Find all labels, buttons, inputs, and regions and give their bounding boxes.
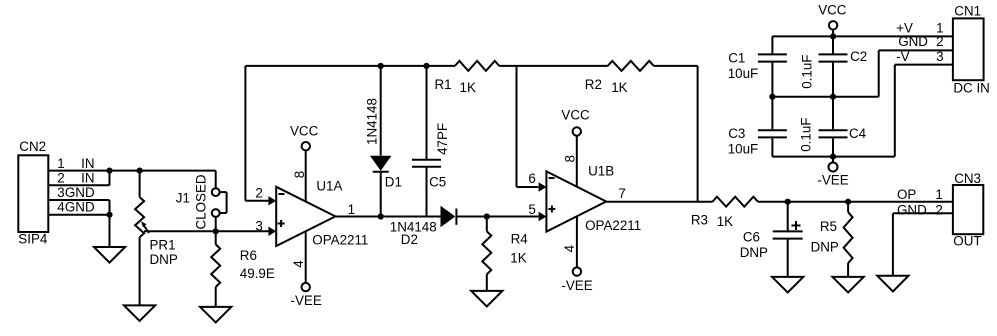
svg-text:SIP4: SIP4	[18, 231, 48, 246]
label C5 47PF	[435, 123, 450, 155]
svg-text:GND: GND	[65, 185, 95, 200]
svg-text:1N4148: 1N4148	[364, 98, 379, 145]
wire R2 to output	[654, 66, 698, 202]
CN1 pin3 label -V	[896, 49, 943, 64]
label C2	[850, 49, 867, 64]
U1A pin 8 label	[292, 171, 307, 178]
capacitor C5	[412, 66, 441, 217]
terminal U1A -VEE	[302, 283, 310, 291]
label U1B OPA2211	[585, 218, 641, 233]
svg-text:-V: -V	[896, 49, 909, 64]
terminal VCC	[829, 21, 837, 29]
label C4 0.1uF	[799, 118, 814, 152]
svg-text:1K: 1K	[611, 80, 627, 95]
wire feedback left vertical	[244, 66, 246, 201]
U1A pin 1 label	[348, 202, 355, 217]
label R5	[820, 219, 837, 234]
svg-text:VCC: VCC	[290, 124, 319, 139]
wire CN1 pin2 GND	[879, 49, 953, 51]
svg-text:3: 3	[57, 185, 64, 200]
wire D2 to U1B pin5	[456, 216, 538, 218]
wire CN2 pin2	[48, 171, 109, 186]
svg-text:R1: R1	[435, 77, 452, 92]
svg-text:47PF: 47PF	[435, 123, 450, 155]
label VCC	[818, 2, 847, 17]
CN2 pin 1 label	[57, 156, 94, 171]
svg-text:10uF: 10uF	[728, 141, 759, 156]
svg-text:1K: 1K	[460, 80, 476, 95]
label R4 1K	[510, 251, 526, 266]
wire CN2 pin1 / node IN	[48, 170, 215, 172]
svg-text:C2: C2	[850, 49, 867, 64]
wire U1A output	[335, 216, 440, 218]
svg-text:0.1uF: 0.1uF	[799, 118, 814, 152]
CN2 pin 4 label	[57, 200, 95, 215]
CN1 pin2 label GND	[898, 34, 943, 49]
ground R4	[471, 291, 502, 307]
junction pin3-pin4	[106, 212, 112, 218]
svg-text:DNP: DNP	[150, 252, 178, 267]
svg-text:IN: IN	[81, 171, 94, 186]
U1A pin 3 arrow	[268, 227, 276, 236]
ground CN2	[94, 247, 125, 263]
svg-text:1: 1	[348, 202, 355, 217]
label R6	[240, 248, 257, 263]
svg-text:CN1: CN1	[954, 3, 981, 18]
label R5 DNP	[811, 240, 839, 255]
U1B pin 5 arrow	[539, 212, 547, 221]
label CN3 OUT	[953, 234, 981, 249]
svg-text:49.9E: 49.9E	[240, 266, 275, 281]
svg-text:-VEE: -VEE	[817, 173, 848, 188]
capacitor C4	[819, 97, 848, 157]
svg-text:7: 7	[618, 186, 625, 201]
svg-text:OP: OP	[897, 187, 916, 202]
resistor R3	[713, 197, 758, 207]
label U1A	[316, 179, 342, 194]
wire VCC rail	[772, 35, 953, 37]
ground PR1	[124, 305, 155, 321]
svg-text:CLOSED: CLOSED	[193, 174, 208, 229]
U1B pin 6 label	[528, 171, 535, 186]
junction VCC rail	[830, 33, 836, 39]
label CN2	[19, 139, 46, 154]
svg-text:VCC: VCC	[818, 2, 847, 17]
label -VEE	[817, 173, 848, 188]
svg-text:C1: C1	[728, 51, 745, 66]
svg-text:R6: R6	[240, 248, 257, 263]
svg-text:D1: D1	[385, 175, 402, 190]
U1B pin 5 label	[528, 202, 535, 217]
label C6	[743, 230, 760, 245]
U1A pin 4 wire	[305, 231, 307, 283]
label C3	[728, 126, 745, 141]
CN3 pin2 label GND	[897, 203, 943, 218]
svg-text:VCC: VCC	[561, 108, 590, 123]
svg-text:1: 1	[935, 187, 942, 202]
svg-text:J1: J1	[176, 190, 190, 205]
label U1B VCC	[561, 108, 590, 123]
U1B pin 6 arrow	[539, 182, 547, 191]
resistor R6	[211, 231, 220, 307]
capacitor C3	[758, 97, 787, 157]
label C6 DNP	[740, 245, 768, 260]
svg-text:3: 3	[936, 49, 943, 64]
resistor R2	[608, 61, 654, 71]
label R1	[435, 77, 452, 92]
junction C5 top	[423, 63, 429, 69]
jumper J1	[212, 188, 227, 217]
U1A pin 2 label	[255, 185, 262, 200]
junction -VEE rail	[830, 154, 836, 160]
svg-text:4: 4	[291, 260, 306, 268]
svg-text:2: 2	[255, 185, 262, 200]
label C2 0.1uF	[799, 55, 814, 89]
svg-text:DNP: DNP	[740, 245, 768, 260]
svg-text:C6: C6	[743, 230, 760, 245]
junction mid rail C1	[769, 94, 775, 100]
svg-text:R5: R5	[820, 219, 837, 234]
wire CN3 GND to ground	[893, 213, 953, 275]
U1B pin 4 label	[562, 244, 577, 252]
svg-text:8: 8	[292, 171, 307, 178]
terminal U1B VCC	[573, 127, 581, 135]
svg-text:CN3: CN3	[954, 171, 981, 186]
svg-text:CN2: CN2	[19, 139, 46, 154]
wire U1B output	[606, 201, 712, 203]
wire U1A pin2	[245, 196, 276, 205]
svg-text:PR1: PR1	[150, 237, 176, 252]
label D1 1N4148	[364, 98, 379, 145]
label SIP4	[18, 231, 48, 246]
terminal U1A VCC	[302, 142, 310, 150]
U1A pin 3 label	[255, 218, 262, 233]
label C1 10uF	[728, 66, 759, 81]
U1A pin 4 label	[291, 260, 306, 268]
CN2 pin 2 label	[57, 171, 94, 186]
ground CN3	[877, 276, 908, 292]
resistor R5	[844, 202, 853, 277]
svg-text:GND: GND	[898, 34, 928, 49]
wire -VEE rail	[772, 65, 894, 157]
label R3	[691, 213, 708, 228]
connector CN2	[18, 155, 48, 232]
junction mid rail C2	[830, 94, 836, 100]
connector CN1	[953, 18, 984, 80]
U1B pin 8 label	[562, 155, 577, 162]
wire wiper net to U1A pin3	[144, 230, 269, 232]
svg-text:0.1uF: 0.1uF	[799, 55, 814, 89]
wire CN2 pin3	[48, 200, 109, 215]
resistor R4	[482, 217, 491, 291]
capacitor C1	[758, 36, 787, 96]
svg-text:GND: GND	[65, 200, 95, 215]
diode D1	[370, 66, 391, 217]
capacitor C2	[819, 36, 848, 96]
wire U1B pin6 drop	[517, 66, 539, 187]
svg-text:1K: 1K	[717, 214, 733, 229]
label D2 1N4148	[390, 220, 437, 235]
U1A pin 8 wire	[305, 151, 307, 202]
U1B pin 8 wire	[576, 136, 578, 187]
diode D2	[441, 206, 457, 227]
wire PR1 top lead	[139, 171, 141, 198]
label CN1	[954, 3, 981, 18]
svg-text:DNP: DNP	[811, 240, 839, 255]
wire top feedback line	[245, 65, 455, 67]
svg-text:10uF: 10uF	[728, 66, 759, 81]
trimmer PR1	[135, 197, 149, 305]
label CN3	[954, 171, 981, 186]
label R1 1K	[460, 80, 476, 95]
label R4	[511, 232, 529, 247]
svg-text:1: 1	[57, 156, 64, 171]
label J1	[176, 190, 190, 205]
wire VCC to rail	[832, 30, 834, 37]
svg-text:5: 5	[528, 202, 535, 217]
label C4	[849, 126, 867, 141]
resistor R1	[455, 61, 499, 71]
terminal U1B -VEE	[573, 267, 581, 275]
svg-text:2: 2	[936, 34, 943, 49]
op-amp U1A	[276, 187, 335, 246]
U1B pin 4 wire	[576, 216, 578, 267]
svg-text:OPA2211: OPA2211	[312, 232, 368, 247]
svg-text:R2: R2	[585, 77, 602, 92]
label CN1 DC IN	[953, 80, 989, 95]
junction R4 top	[484, 213, 490, 219]
wire GND mid rail	[772, 50, 878, 96]
label U1B -VEE	[561, 278, 592, 293]
svg-text:OUT: OUT	[953, 234, 981, 249]
junction C6 top	[785, 199, 791, 205]
svg-text:GND: GND	[897, 203, 927, 218]
svg-text:1K: 1K	[510, 251, 526, 266]
label U1A OPA2211	[312, 232, 368, 247]
terminal -VEE	[829, 157, 838, 172]
svg-text:IN: IN	[81, 156, 94, 171]
junction J1/R6/wiper	[213, 228, 219, 234]
svg-text:4: 4	[562, 244, 577, 252]
label U1A VCC	[290, 124, 319, 139]
svg-text:2: 2	[935, 203, 942, 218]
CN1 pin1 label +V	[896, 21, 943, 36]
wire J1 top lead	[215, 171, 217, 189]
junction PR1 top	[137, 168, 143, 174]
svg-text:R3: R3	[691, 213, 708, 228]
label C1	[728, 51, 745, 66]
wire R1 to R2	[499, 65, 608, 67]
wire CN2 pin4 to ground	[48, 215, 109, 247]
svg-text:DC IN: DC IN	[953, 80, 989, 95]
svg-text:2: 2	[57, 171, 64, 186]
label R6 49.9E	[240, 266, 275, 281]
wire J1 bottom lead	[215, 217, 217, 231]
svg-text:U1B: U1B	[588, 164, 614, 179]
junction pin1-pin2	[106, 168, 112, 174]
svg-text:C3: C3	[728, 126, 745, 141]
capacitor C6	[773, 202, 803, 277]
label R3 1K	[717, 214, 733, 229]
label C3 10uF	[728, 141, 759, 156]
ground R5	[833, 277, 864, 293]
CN2 pin 3 label	[57, 185, 95, 200]
label D1	[385, 175, 402, 190]
label PR1	[150, 237, 176, 252]
label PR1 DNP	[150, 252, 178, 267]
junction D1 top	[378, 63, 384, 69]
svg-text:3: 3	[255, 218, 262, 233]
svg-text:C4: C4	[849, 126, 867, 141]
ground C6	[772, 277, 803, 293]
svg-text:R4: R4	[511, 232, 529, 247]
CN3 pin1 label OP	[897, 187, 943, 202]
label R2	[585, 77, 602, 92]
junction R5 top	[845, 199, 851, 205]
ground R6	[200, 307, 231, 323]
svg-text:OPA2211: OPA2211	[585, 218, 641, 233]
U1B pin 7 label	[618, 186, 625, 201]
label U1A -VEE	[291, 293, 322, 308]
wire R3 to CN3	[758, 201, 953, 203]
label R2 1K	[611, 80, 627, 95]
op-amp U1B	[546, 171, 606, 231]
svg-text:8: 8	[562, 155, 577, 162]
svg-text:U1A: U1A	[316, 179, 342, 194]
svg-text:-VEE: -VEE	[291, 293, 322, 308]
label J1 CLOSED	[193, 174, 208, 229]
connector CN3	[953, 185, 983, 234]
svg-text:6: 6	[528, 171, 535, 186]
wire CN1 pin3 -V	[895, 64, 953, 66]
label U1B	[588, 164, 614, 179]
svg-text:D2: D2	[401, 232, 418, 247]
label D2	[401, 232, 418, 247]
junction D1 bottom	[378, 213, 384, 219]
label C5	[429, 175, 446, 190]
svg-text:C5: C5	[429, 175, 446, 190]
svg-text:-VEE: -VEE	[561, 278, 592, 293]
